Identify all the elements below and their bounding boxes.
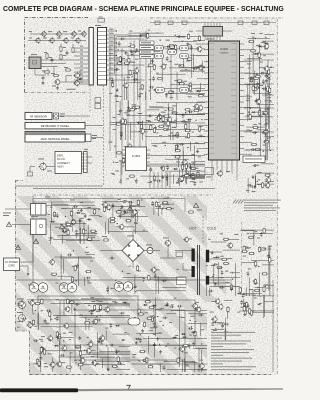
- wire: [170, 53, 172, 100]
- node junction: [131, 76, 132, 77]
- resistor R235: [255, 261, 257, 267]
- wire: [131, 131, 148, 133]
- transistor Q123: [197, 104, 203, 111]
- value label: [130, 148, 134, 151]
- value label: [220, 232, 223, 235]
- resistor R137: [185, 123, 187, 129]
- value label: [128, 154, 130, 157]
- node label box: [140, 55, 155, 59]
- resistor R152: [124, 119, 126, 125]
- transistor Q126: [126, 143, 132, 150]
- node junction: [136, 210, 137, 211]
- svg-text:COLD: COLD: [207, 227, 217, 231]
- wire: [60, 81, 88, 83]
- wire: [95, 198, 185, 200]
- wire: [165, 48, 205, 50]
- wire: [183, 359, 185, 373]
- wire: [56, 336, 73, 338]
- wire: [244, 107, 260, 109]
- resistor R272: [144, 321, 146, 327]
- value label: [120, 95, 122, 98]
- value label: [163, 237, 169, 240]
- wire: [27, 299, 128, 301]
- wire: [234, 263, 236, 296]
- capacitor C103: [51, 57, 54, 62]
- resistor R239: [137, 265, 139, 271]
- value label: [75, 361, 77, 364]
- node junction: [267, 76, 268, 77]
- resistor R236: [242, 250, 248, 252]
- svg-text:DEFL: DEFL: [57, 154, 64, 158]
- value label: [192, 153, 195, 156]
- resistor R259: [56, 331, 58, 337]
- value label: [42, 70, 46, 73]
- diode D116: [50, 221, 55, 223]
- transistor Q158: [79, 357, 85, 364]
- wire: [126, 86, 128, 100]
- value label: [177, 81, 179, 84]
- wire: [122, 161, 126, 163]
- resistor R154: [157, 115, 159, 121]
- node junction: [255, 132, 256, 133]
- transistor Q115: [160, 63, 166, 70]
- node junction: [116, 55, 117, 56]
- resistor R183: [250, 50, 256, 52]
- node junction: [160, 118, 161, 119]
- capacitor C128: [135, 179, 138, 184]
- capacitor C216: [221, 323, 224, 328]
- wire: [245, 115, 263, 117]
- wire: [241, 222, 243, 292]
- wire: [197, 78, 204, 80]
- value label: [139, 92, 143, 95]
- transistor Q110: [73, 72, 79, 79]
- value label: [154, 145, 157, 148]
- transistor Q148: [17, 313, 25, 322]
- wire: [107, 46, 131, 48]
- value label: [213, 256, 216, 259]
- ground: [255, 98, 258, 101]
- transistor Q101: [40, 31, 46, 38]
- wire: [169, 67, 205, 69]
- wire: [150, 22, 276, 24]
- value label: [44, 51, 47, 54]
- wire: [142, 121, 144, 140]
- resistor R129: [171, 48, 173, 54]
- capacitor C160: [56, 213, 59, 218]
- value label: [247, 97, 250, 100]
- capacitor C06: [205, 168, 214, 175]
- capacitor C186: [162, 280, 167, 283]
- resistor R151: [115, 123, 121, 125]
- wire: [125, 119, 127, 140]
- resistor R276: [183, 344, 189, 346]
- value label: [17, 320, 21, 323]
- wire: [256, 172, 274, 174]
- node junction: [89, 311, 90, 312]
- capacitor C173: [109, 257, 114, 260]
- capacitor C187: [120, 312, 125, 315]
- transistor Q146: [150, 266, 156, 273]
- wire: [211, 241, 226, 243]
- wire: [149, 278, 177, 280]
- value label: [249, 129, 252, 132]
- value label: [88, 318, 90, 321]
- resistor R263: [147, 366, 153, 368]
- capacitor C201: [109, 344, 114, 347]
- node warning triangle: [6, 222, 11, 226]
- wire: [69, 352, 71, 372]
- node junction: [167, 49, 168, 50]
- node note text line: [244, 207, 280, 208]
- inductor L101: [155, 45, 164, 50]
- value label: [246, 94, 249, 97]
- svg-text:JACK MODULE PANEL: JACK MODULE PANEL: [40, 137, 70, 141]
- wire: [213, 23, 215, 27]
- capacitor C153: [250, 148, 255, 151]
- resistor R244: [34, 303, 40, 305]
- resistor R242: [69, 301, 75, 303]
- value label: [159, 114, 163, 117]
- wire: [195, 176, 205, 178]
- wire: [20, 265, 29, 267]
- resistor R233: [243, 245, 245, 251]
- wire: [247, 58, 262, 60]
- resistor R162: [154, 175, 156, 181]
- wire: [192, 177, 205, 179]
- wire: [166, 313, 176, 315]
- value label: [93, 232, 97, 235]
- wire: [86, 254, 95, 256]
- wire: [277, 19, 279, 374]
- node junction: [60, 224, 61, 225]
- capacitor C146: [260, 72, 265, 75]
- wire: [171, 310, 207, 312]
- wire: [12, 224, 31, 226]
- resistor R177: [250, 76, 252, 82]
- node scan shadow: [0, 388, 283, 392]
- wire: [87, 225, 89, 241]
- wire: [264, 301, 274, 303]
- wire: [75, 310, 185, 360]
- value label: [174, 119, 177, 122]
- wire: [129, 204, 131, 215]
- capacitor C161: [62, 230, 67, 233]
- value label: [135, 58, 138, 61]
- wire: [112, 203, 114, 217]
- node warning triangle: [33, 239, 38, 243]
- wire: [197, 89, 204, 91]
- resistor R123: [128, 58, 130, 64]
- value label: [117, 113, 120, 116]
- wire: [59, 115, 91, 117]
- wire: [247, 126, 266, 128]
- ground: [27, 272, 30, 275]
- capacitor C179: [267, 254, 270, 259]
- wire: [148, 344, 207, 346]
- wire: [122, 153, 126, 155]
- wire: [134, 275, 136, 294]
- transistor Q155: [92, 318, 98, 325]
- wire: [182, 359, 184, 372]
- transistor Q124: [164, 120, 170, 127]
- value label: [176, 182, 179, 185]
- wire: [53, 315, 130, 317]
- wire: [130, 150, 132, 158]
- wire: [210, 23, 212, 27]
- value label: [75, 279, 77, 282]
- value label: [129, 145, 132, 148]
- diode D129: [164, 304, 169, 306]
- value label: [39, 338, 43, 341]
- capacitor C217: [224, 323, 229, 326]
- capacitor C142: [238, 21, 243, 24]
- capacitor C175: [208, 290, 213, 293]
- wire: [258, 44, 260, 101]
- wire: [60, 257, 95, 259]
- value label: [256, 111, 261, 114]
- value label: [98, 208, 100, 211]
- node label box: [243, 156, 265, 163]
- node junction: [117, 223, 118, 224]
- value label: [213, 329, 217, 332]
- wire: [80, 228, 82, 244]
- node junction: [148, 66, 149, 67]
- value label: [265, 99, 268, 102]
- value label: [121, 200, 124, 203]
- value label: [63, 46, 66, 49]
- value label: [128, 61, 132, 64]
- capacitor C200: [117, 362, 122, 365]
- capacitor C211: [177, 305, 182, 308]
- value label: [134, 72, 137, 75]
- wire: [157, 172, 159, 189]
- wire: [174, 143, 206, 145]
- inductor L106: [156, 87, 165, 92]
- diode D126: [152, 305, 157, 307]
- resistor R226: [254, 289, 260, 291]
- node junction: [92, 361, 93, 362]
- op-amp U02: [126, 147, 147, 171]
- value label: [100, 342, 103, 345]
- wire: [108, 219, 110, 234]
- resistor R173: [190, 167, 196, 169]
- value label: [258, 171, 262, 174]
- resistor R232: [260, 248, 266, 250]
- wire: [134, 363, 207, 365]
- resistor R240: [148, 275, 150, 281]
- value label: [197, 209, 202, 212]
- wire: [37, 314, 39, 330]
- value label: [247, 114, 250, 117]
- wire: [87, 162, 92, 164]
- node junction: [122, 271, 123, 272]
- wire: [259, 272, 261, 296]
- wire: [82, 159, 84, 161]
- wire: [176, 102, 178, 127]
- wire: [200, 350, 202, 372]
- node junction: [180, 65, 181, 66]
- value label: [134, 222, 137, 225]
- value label: [3, 214, 9, 217]
- wire: [74, 59, 88, 61]
- value label: [246, 149, 249, 152]
- value label: [184, 80, 188, 83]
- resistor R253: [38, 360, 40, 366]
- node junction: [185, 112, 186, 113]
- value label: [260, 61, 263, 64]
- value label: [91, 236, 95, 239]
- wire: [262, 94, 274, 96]
- capacitor C166: [76, 264, 79, 269]
- value label: [166, 128, 169, 131]
- node junction: [35, 310, 36, 311]
- wire: [156, 102, 205, 104]
- value label: [109, 77, 114, 80]
- resistor R110: [116, 62, 122, 64]
- wire: [209, 282, 232, 284]
- ground: [250, 77, 253, 80]
- capacitor C120: [181, 120, 186, 123]
- resistor R279: [250, 310, 252, 316]
- wire: [107, 50, 145, 52]
- resistor R234: [248, 236, 254, 238]
- transistor Q117: [132, 67, 138, 74]
- transistor Q169: [214, 298, 220, 305]
- value label: [50, 318, 53, 321]
- value label: [80, 65, 83, 68]
- value label: [161, 111, 163, 114]
- wire: [60, 300, 195, 345]
- value label: [174, 347, 176, 350]
- wire: [244, 84, 252, 86]
- value label: [196, 301, 199, 304]
- resistor R133: [168, 91, 174, 93]
- value label: [257, 237, 260, 240]
- node control-module frame: [25, 18, 89, 93]
- node junction: [107, 368, 108, 369]
- resistor R229: [263, 228, 265, 234]
- transistor Q111: [73, 79, 79, 86]
- resistor R112: [153, 64, 155, 70]
- node junction: [215, 328, 216, 329]
- node junction: [179, 357, 180, 358]
- resistor R145: [131, 107, 137, 109]
- wire: [250, 232, 273, 234]
- value label: [120, 131, 123, 134]
- capacitor C119: [120, 132, 123, 137]
- ground: [116, 88, 119, 91]
- wire: [161, 204, 163, 215]
- wire: [116, 369, 130, 371]
- ground: [97, 340, 100, 343]
- wire: [86, 352, 130, 354]
- wire: [143, 338, 207, 340]
- capacitor C169: [119, 214, 122, 219]
- value label: [60, 284, 66, 287]
- svg-text:CONNECT: CONNECT: [57, 161, 70, 165]
- node junction: [116, 69, 117, 70]
- value label: [172, 126, 176, 129]
- transistor Q132: [263, 43, 269, 50]
- transistor Q162: [85, 347, 91, 354]
- value label: [200, 328, 204, 331]
- resistor R155: [188, 133, 190, 139]
- wire: [83, 222, 85, 244]
- value label: [255, 264, 258, 267]
- wire: [113, 35, 115, 74]
- wire: [41, 326, 93, 328]
- wire: [41, 63, 66, 65]
- value label: [99, 16, 103, 19]
- wire: [33, 205, 95, 207]
- node note text line: [211, 342, 246, 345]
- wire: [240, 230, 254, 232]
- node page number: [126, 385, 130, 390]
- diode D109: [191, 178, 196, 180]
- wire: [244, 149, 274, 151]
- value label: [158, 308, 161, 311]
- value label: [187, 43, 191, 46]
- value label: [155, 268, 160, 271]
- capacitor C181: [247, 271, 250, 276]
- node junction: [191, 326, 192, 327]
- value label: [164, 109, 166, 112]
- value label: [200, 359, 204, 362]
- wire: [213, 285, 240, 287]
- value label: [150, 326, 154, 329]
- value label: [149, 169, 153, 172]
- value label: [155, 118, 157, 121]
- value label: [28, 320, 31, 323]
- wire: [197, 101, 204, 103]
- resistor R109: [189, 82, 191, 88]
- node junction: [263, 151, 264, 152]
- value label: [132, 363, 136, 366]
- wire: [107, 74, 131, 76]
- transistor Q134: [264, 182, 270, 189]
- transistor Q133: [263, 65, 269, 72]
- wire: [182, 174, 205, 176]
- value label: [116, 100, 119, 103]
- transistor Q107: [62, 37, 68, 44]
- node junction: [78, 210, 79, 211]
- capacitor C113: [176, 35, 181, 38]
- wire: [168, 113, 205, 115]
- resistor R138: [176, 132, 178, 138]
- node junction: [250, 108, 251, 109]
- value label: [163, 197, 167, 200]
- value label: [169, 120, 172, 123]
- value label: [179, 316, 182, 319]
- capacitor C149: [266, 72, 269, 77]
- inductor L105: [180, 53, 189, 58]
- wire: [127, 54, 160, 56]
- resistor R124: [124, 62, 130, 64]
- diode D113: [251, 111, 256, 113]
- value label: [110, 287, 114, 290]
- wire: [53, 239, 92, 241]
- wire: [147, 153, 151, 155]
- node junction: [140, 334, 141, 335]
- capacitor C178: [230, 286, 233, 291]
- value label: [70, 199, 75, 202]
- resistor R230: [269, 257, 271, 263]
- diode D112: [254, 53, 259, 55]
- transistor Q141: [158, 203, 164, 210]
- value label: [17, 311, 23, 314]
- capacitor C124: [137, 121, 142, 124]
